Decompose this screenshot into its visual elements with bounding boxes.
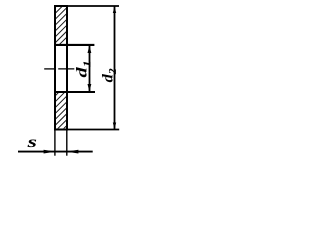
dimension line d2: [114, 6, 116, 129]
top extension line for d2: [67, 5, 119, 7]
hatching bottom band (section cut): [50, 72, 79, 142]
label d2: [102, 69, 116, 83]
hatching top band (section cut): [49, 0, 83, 52]
s extension line right: [66, 130, 68, 155]
washer outline rect (section view): [55, 6, 67, 130]
hole top edge line: [54, 44, 94, 46]
centerline (axis, dash): [44, 68, 74, 70]
s extension line left: [54, 130, 56, 155]
label s: [27, 139, 36, 147]
dimension line d1: [89, 46, 91, 92]
arrowhead d1 down: [88, 84, 92, 92]
arrowhead d2 down: [113, 123, 116, 130]
arrowhead d2 up: [113, 6, 116, 13]
label d1: [76, 62, 90, 78]
bottom extension line for d2: [67, 129, 119, 131]
arrowhead s left-pointing: [66, 150, 78, 154]
arrowhead d1 up: [88, 45, 92, 53]
arrowhead s right-pointing: [44, 150, 56, 154]
hole bottom edge line: [54, 91, 95, 93]
dimension line s: [18, 151, 93, 153]
